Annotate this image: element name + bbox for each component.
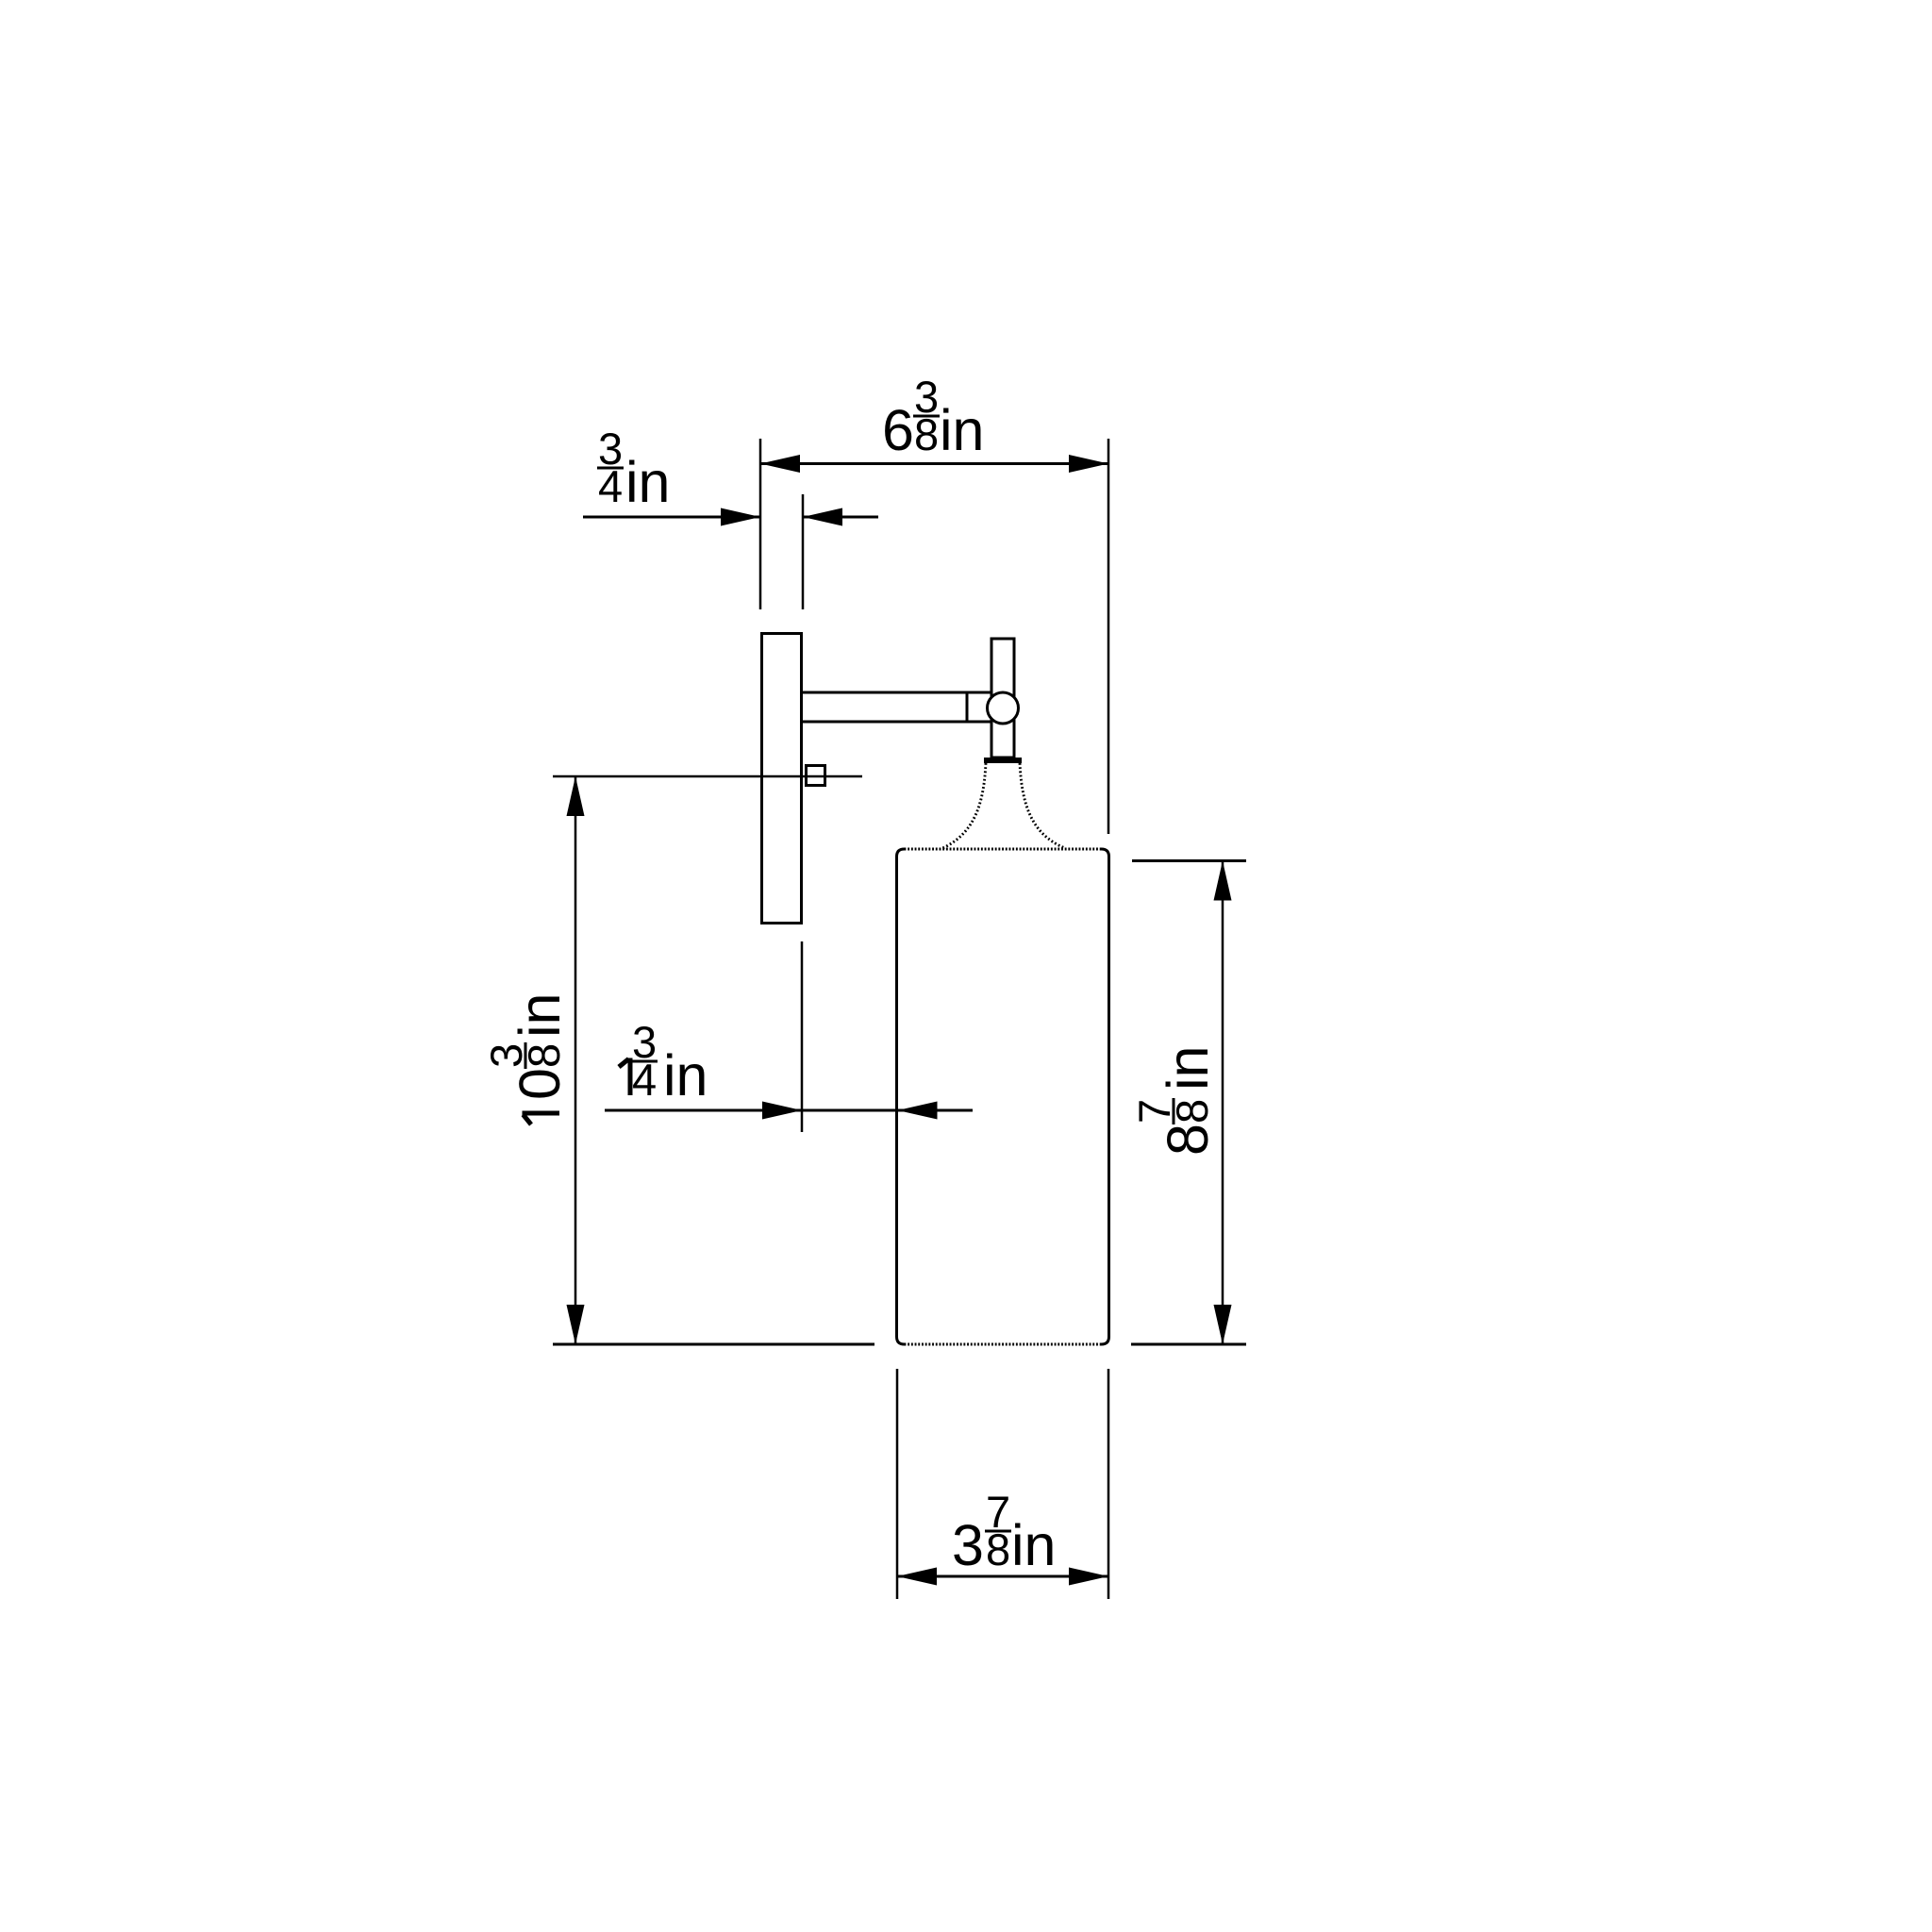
dim C line [575, 776, 577, 1344]
dim A arrow right [1069, 455, 1108, 473]
dim D label 1 3/4 in [619, 1017, 708, 1108]
dim D line [605, 1109, 973, 1112]
dim C label 10 3/8 in rotated [481, 993, 572, 1124]
dim A extension left [759, 439, 762, 609]
cylinder bottom-right corner [1102, 1337, 1109, 1344]
dim F line [897, 1575, 1108, 1578]
dim A arrow left [760, 455, 800, 473]
cylinder top-left corner [897, 849, 905, 857]
mounting centerline through plate [553, 775, 862, 778]
dim F extension right [1108, 1369, 1110, 1599]
dim A label 6 3/8 in [882, 372, 984, 462]
svg-text:4: 4 [632, 1055, 657, 1105]
cylinder top dotted edge [905, 848, 1102, 851]
dim A line [760, 462, 1108, 465]
socket ring [984, 758, 1022, 763]
cylinder left edge [895, 857, 898, 1337]
svg-text:3: 3 [952, 1513, 984, 1577]
dim C bottom extension [553, 1343, 874, 1346]
dim D arrow right-pointing [762, 1102, 802, 1120]
dim E line [1222, 861, 1224, 1345]
cylinder top-right corner [1102, 849, 1109, 857]
dim F arrow right [1069, 1568, 1108, 1586]
dim C arrow up [567, 776, 585, 816]
dim E arrow down [1214, 1305, 1232, 1344]
svg-text:in: in [508, 993, 572, 1038]
svg-text:8: 8 [914, 409, 939, 459]
dim D extension [801, 941, 804, 1132]
svg-text:in: in [625, 450, 670, 514]
ball joint circle [988, 692, 1019, 724]
bell left curve [941, 763, 986, 849]
svg-text:in: in [940, 398, 984, 462]
dim F label 3 7/8 in [952, 1487, 1056, 1577]
cylinder bottom dotted edge [905, 1343, 1102, 1346]
arm top line [803, 691, 991, 694]
dim E bottom extension [1131, 1343, 1246, 1346]
bell right curve [1020, 763, 1065, 848]
svg-text:6: 6 [882, 398, 914, 462]
dim F extension left [896, 1369, 899, 1599]
dim A extension right [1108, 439, 1110, 834]
dim B extension right [802, 494, 805, 609]
dim C arrow down [567, 1305, 585, 1344]
svg-text:in: in [1156, 1046, 1220, 1091]
dim E arrow up [1214, 861, 1232, 901]
wall plate [762, 634, 802, 924]
dim D arrow left-pointing [898, 1102, 938, 1120]
dim B right tail [803, 516, 878, 519]
dim B left tail [583, 516, 760, 519]
cylinder right edge [1108, 857, 1110, 1337]
svg-text:in: in [663, 1043, 708, 1108]
dim E top extension [1132, 859, 1246, 862]
arm end separator [966, 692, 969, 722]
svg-text:8: 8 [986, 1524, 1010, 1574]
screw box on plate [807, 766, 825, 786]
svg-text:4: 4 [598, 461, 623, 511]
svg-text:8: 8 [1156, 1124, 1220, 1156]
svg-text:0: 0 [508, 1068, 572, 1100]
svg-text:in: in [1011, 1513, 1056, 1577]
arm bottom line [803, 721, 991, 724]
svg-text:8: 8 [519, 1043, 569, 1068]
stem [991, 639, 1014, 758]
dim B arrow left-pointing [803, 508, 842, 526]
cylinder bottom-left corner [897, 1337, 905, 1344]
dim B arrow right-pointing [721, 508, 760, 526]
svg-text:8: 8 [1167, 1099, 1217, 1124]
dim E label 8 7/8 in rotated [1129, 1046, 1220, 1156]
dim B label 3/4 in [597, 424, 670, 514]
dim F arrow left [897, 1568, 937, 1586]
